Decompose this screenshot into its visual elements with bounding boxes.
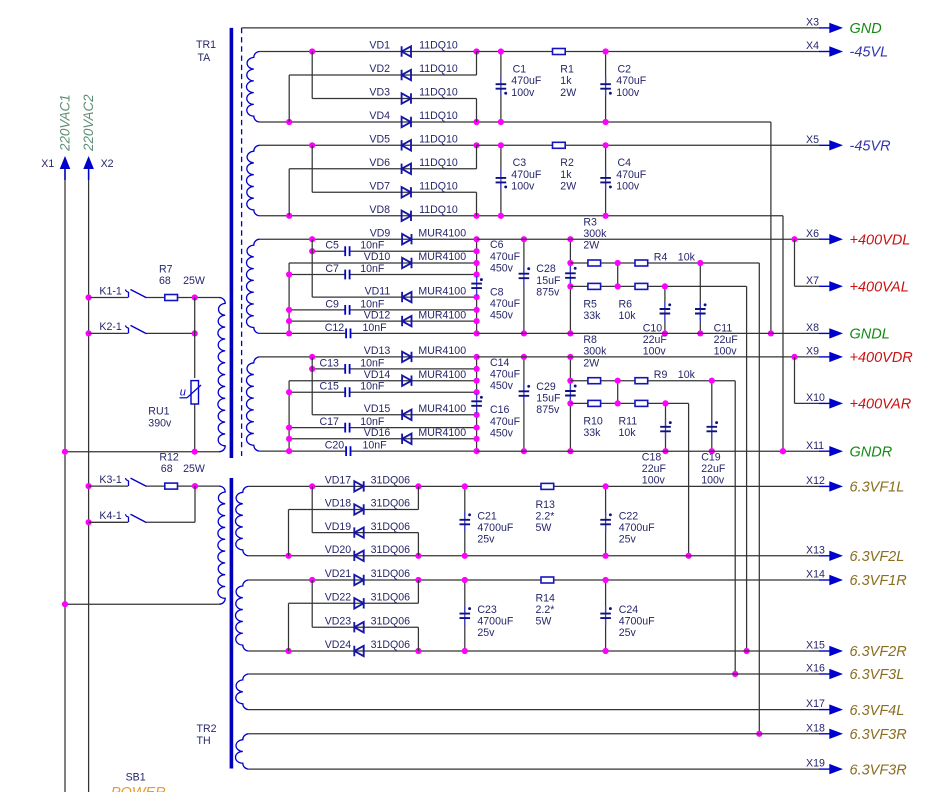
- svg-text:X14: X14: [806, 569, 825, 581]
- wire C17 row: [289, 427, 344, 429]
- svg-text:C10: C10: [643, 323, 663, 335]
- svg-text:R2: R2: [560, 157, 574, 169]
- wire 6.3VF3R rail X18: [249, 733, 819, 735]
- node C6 top: [521, 236, 527, 242]
- svg-text:X3: X3: [806, 17, 819, 29]
- capacitor C23: [464, 580, 466, 614]
- svg-text:C28: C28: [536, 263, 556, 275]
- svg-text:VD3: VD3: [369, 87, 390, 99]
- transformer TR1 core: [230, 28, 234, 458]
- diode VD13 MUR4100: [402, 352, 411, 362]
- node C29 rail top: [567, 354, 573, 360]
- svg-text:11DQ10: 11DQ10: [419, 40, 458, 52]
- wire VD18 left vertical: [288, 510, 290, 556]
- svg-text:470uF: 470uF: [511, 75, 542, 87]
- wire K4-1 to corner: [147, 521, 196, 523]
- node C3 top: [498, 142, 504, 148]
- wire R8 row left: [570, 380, 587, 382]
- capacitor C16: [476, 394, 478, 414]
- svg-text:4700uF: 4700uF: [477, 616, 513, 628]
- node C15 row branch: [286, 389, 292, 395]
- node VD16 row branch: [286, 436, 292, 442]
- diode VD20 31DQ06: [354, 551, 363, 561]
- svg-text:6.3VF1L: 6.3VF1L: [850, 480, 905, 496]
- diode VD2 11DQ10: [402, 70, 411, 80]
- node VD1 row branch: [309, 48, 315, 54]
- wire VD4 row: [260, 121, 501, 123]
- diode VD10 MUR4100: [402, 258, 411, 268]
- wire 6.3VF2L rail: [465, 555, 819, 557]
- terminal X1 arrow: [60, 156, 71, 169]
- node R4 mid top: [615, 260, 621, 266]
- diode VD16 MUR4100: [402, 434, 411, 444]
- node C11 top: [697, 260, 703, 266]
- svg-text:X7: X7: [806, 275, 819, 287]
- wire C9 row: [289, 309, 344, 311]
- capacitor C9 10nF: [345, 305, 349, 315]
- wire C15 row: [289, 391, 344, 393]
- wire R10-R11 segment: [601, 402, 634, 404]
- svg-text:VD7: VD7: [369, 181, 390, 193]
- svg-text:R9: R9: [654, 369, 668, 381]
- svg-text:X2: X2: [101, 158, 114, 170]
- wire K2-1 to junction: [147, 332, 195, 334]
- wire TR2 primary bottom return: [65, 603, 220, 605]
- node right column junction: [474, 366, 480, 372]
- node VD20 right junction: [415, 553, 421, 559]
- node C5 row branch: [309, 248, 315, 254]
- svg-text:10nF: 10nF: [363, 322, 388, 334]
- node VD24 right junction: [415, 648, 421, 654]
- svg-text:11DQ10: 11DQ10: [419, 87, 458, 99]
- wire 6.3VF1L rail: [465, 485, 819, 487]
- capacitor C7 10nF: [345, 270, 349, 280]
- svg-text:R4: R4: [654, 251, 668, 263]
- node C28 rail top: [567, 236, 573, 242]
- transformer TR1 secondary winding 2: [247, 145, 260, 216]
- wire 6.3VF3R rail X19: [249, 768, 819, 770]
- capacitor C24: [605, 580, 607, 614]
- svg-text:6.3VF4L: 6.3VF4L: [850, 703, 905, 719]
- node right column junction: [474, 307, 480, 313]
- node K1-1 tap on X2 line: [86, 294, 92, 300]
- varistor RU1: [191, 381, 199, 404]
- diode VD21 31DQ06: [354, 575, 363, 585]
- svg-text:VD14: VD14: [364, 369, 391, 381]
- svg-text:10nF: 10nF: [360, 357, 385, 369]
- node right column junction: [474, 294, 480, 300]
- node K2-1 tap on X2 line: [86, 330, 92, 336]
- svg-text:K1-1: K1-1: [99, 285, 121, 297]
- node right column junction: [474, 378, 480, 384]
- svg-text:4700uF: 4700uF: [619, 522, 655, 534]
- svg-text:POWER: POWER: [111, 785, 166, 792]
- svg-text:68: 68: [159, 275, 171, 287]
- svg-text:6.3VF3R: 6.3VF3R: [850, 727, 908, 743]
- svg-text:470uF: 470uF: [511, 169, 542, 181]
- resistor R2: [553, 142, 566, 148]
- capacitor C29 column: [569, 357, 571, 381]
- svg-text:C2: C2: [618, 64, 632, 76]
- svg-text:MUR4100: MUR4100: [418, 285, 466, 297]
- node VD8 return on GNDR: [780, 448, 786, 454]
- svg-text:22uF: 22uF: [642, 463, 667, 475]
- svg-text:33k: 33k: [583, 427, 601, 439]
- diode VD1 11DQ10: [402, 46, 411, 56]
- wire RU1 to primary return: [194, 405, 196, 452]
- node VD21 right junction: [415, 577, 421, 583]
- svg-text:10k: 10k: [678, 369, 696, 381]
- node R6 drop to X15 rail: [744, 648, 750, 654]
- svg-text:6.3VF2L: 6.3VF2L: [850, 549, 905, 565]
- svg-text:+400VDL: +400VDL: [850, 232, 911, 248]
- wire GND rail to X3: [242, 27, 819, 29]
- node R11 mid bottom: [615, 400, 621, 406]
- svg-text:VD4: VD4: [369, 110, 390, 122]
- node VD12 row branch: [286, 318, 292, 324]
- node TR1 primary top junction: [192, 294, 198, 300]
- wire VD9-VD11 left vertical: [311, 239, 313, 297]
- wire R4 row right: [648, 262, 759, 264]
- wire VD22 row: [289, 602, 419, 604]
- svg-text:25v: 25v: [619, 534, 637, 546]
- terminal X8 GNDL: [819, 332, 830, 334]
- svg-text:C20: C20: [325, 440, 345, 452]
- node right column junction: [474, 354, 480, 360]
- svg-text:100v: 100v: [714, 346, 738, 358]
- wire 6.3VF2R rail: [465, 650, 819, 652]
- wire VD10 left vertical: [288, 263, 290, 333]
- diode VD24 31DQ06: [354, 646, 363, 656]
- node C22 top: [603, 483, 609, 489]
- node R11 drop to X13 rail: [686, 553, 692, 559]
- wire R9 row right: [648, 380, 735, 382]
- terminal X2 arrow: [83, 156, 94, 169]
- svg-text:6.3VF1R: 6.3VF1R: [850, 573, 908, 589]
- node right column junction: [474, 318, 480, 324]
- svg-text:5W: 5W: [536, 616, 552, 628]
- wire R4-R6 middle vertical: [617, 263, 619, 286]
- svg-text:K4-1: K4-1: [99, 510, 121, 522]
- wire C7 row: [289, 274, 344, 276]
- wire VD5-VD7 left vertical: [311, 145, 313, 192]
- wire VD13 row: [260, 356, 477, 358]
- svg-text:100v: 100v: [701, 475, 725, 487]
- svg-text:10k: 10k: [619, 310, 637, 322]
- node C28 rail bottom: [567, 330, 573, 336]
- wire VD1 row: [260, 51, 477, 53]
- svg-text:R10: R10: [583, 415, 603, 427]
- svg-text:C29: C29: [536, 381, 556, 393]
- svg-text:X19: X19: [806, 758, 825, 770]
- resistor R7: [165, 295, 178, 301]
- wire K1-1 to R7: [147, 297, 165, 299]
- node C2 top: [603, 48, 609, 54]
- wire R12 to TR2 primary: [178, 485, 220, 487]
- transformer TR2 primary winding: [218, 486, 225, 604]
- svg-text:6.3VF2R: 6.3VF2R: [850, 644, 908, 660]
- svg-text:C21: C21: [477, 510, 497, 522]
- transformer TR1 secondary winding 3: [247, 239, 260, 333]
- svg-text:C7: C7: [325, 263, 339, 275]
- svg-text:11DQ10: 11DQ10: [419, 181, 458, 193]
- svg-text:6.3VF3R: 6.3VF3R: [850, 762, 908, 778]
- diode VD22 31DQ06: [354, 598, 363, 608]
- node right column junction: [474, 248, 480, 254]
- capacitor C1: [500, 52, 502, 85]
- svg-text:+400VDR: +400VDR: [850, 350, 914, 366]
- node C9 row branch: [286, 307, 292, 313]
- svg-text:450v: 450v: [490, 310, 514, 322]
- terminal X5 -45VR: [819, 144, 830, 146]
- svg-text:MUR4100: MUR4100: [418, 427, 466, 439]
- svg-text:C11: C11: [714, 323, 733, 335]
- svg-text:GND: GND: [850, 21, 882, 37]
- resistor R5: [588, 283, 601, 289]
- diode VD12 MUR4100: [402, 316, 411, 326]
- node C19 top: [709, 378, 715, 384]
- svg-text:4700uF: 4700uF: [619, 616, 655, 628]
- svg-text:C3: C3: [513, 157, 527, 169]
- transformer TR1 primary winding: [218, 297, 225, 451]
- svg-text:R3: R3: [583, 216, 597, 228]
- node VD9 row branch: [309, 236, 315, 242]
- svg-text:R7: R7: [159, 263, 173, 275]
- node R9 drop to X16 rail: [732, 671, 738, 677]
- wire VD7 row: [312, 191, 476, 193]
- wire VD6 row: [289, 168, 476, 170]
- wire R6 row drop vertical: [746, 286, 748, 651]
- svg-text:VD22: VD22: [325, 592, 352, 604]
- node VD21 row branch: [309, 577, 315, 583]
- svg-text:VD1: VD1: [369, 40, 390, 52]
- node C22 bottom: [603, 553, 609, 559]
- svg-text:C5: C5: [325, 240, 339, 252]
- node X7 branch: [791, 236, 797, 242]
- wire X9 to X10 jog: [794, 357, 796, 404]
- svg-text:C9: C9: [325, 298, 339, 310]
- wire R3 row left: [570, 262, 587, 264]
- capacitor C6: [523, 239, 525, 274]
- diode VD17 31DQ06: [354, 481, 363, 491]
- resistor R12: [165, 483, 178, 489]
- svg-text:K2-1: K2-1: [99, 321, 121, 333]
- resistor R3: [588, 260, 601, 266]
- svg-text:VD23: VD23: [325, 615, 352, 627]
- node right column junction: [474, 425, 480, 431]
- diode VD5 11DQ10: [402, 140, 411, 150]
- svg-text:C19: C19: [701, 451, 721, 463]
- terminal X4 -45VL: [819, 51, 830, 53]
- capacitor C17 10nF: [345, 423, 349, 433]
- wire VD7-VD8 right vertical: [476, 192, 478, 216]
- wire VD17-VD19 left vertical: [311, 486, 313, 532]
- svg-text:2W: 2W: [560, 87, 576, 99]
- svg-text:X15: X15: [806, 640, 825, 652]
- terminal X7 +400VAL: [819, 285, 830, 287]
- svg-text:R8: R8: [583, 334, 597, 346]
- node C18 bottom: [662, 448, 668, 454]
- node R8 row left: [567, 378, 573, 384]
- svg-text:X4: X4: [806, 40, 819, 52]
- svg-text:VD5: VD5: [369, 134, 390, 146]
- wire VD4 return drop to GNDL: [770, 122, 772, 333]
- wire +400VDR rail right portion: [477, 356, 819, 358]
- wire VD14 left vertical: [288, 381, 290, 451]
- wire VD8 row: [260, 215, 501, 217]
- svg-text:VD15: VD15: [364, 403, 391, 415]
- wire R5 row left: [570, 285, 587, 287]
- wire 6.3VF3L rail: [249, 673, 819, 675]
- capacitor C20 10nF: [346, 446, 350, 456]
- terminal X3 GND: [819, 27, 830, 29]
- svg-text:R1: R1: [560, 64, 574, 76]
- svg-text:2.2*: 2.2*: [536, 604, 555, 616]
- svg-text:X10: X10: [806, 392, 825, 404]
- svg-text:R5: R5: [583, 298, 597, 310]
- svg-text:VD17: VD17: [325, 475, 352, 487]
- node VD4 row right junction: [473, 119, 479, 125]
- switch K2-1: [89, 332, 128, 334]
- node R10 row left: [567, 400, 573, 406]
- node K3-1 tap on X2 line: [86, 483, 92, 489]
- diode VD8 11DQ10: [402, 211, 411, 221]
- wire right column lower segment: [476, 408, 478, 451]
- wire VD9 row: [260, 238, 477, 240]
- capacitor C4: [605, 145, 607, 178]
- svg-text:X6: X6: [806, 228, 819, 240]
- node K4-1 tap on X2 line: [86, 519, 92, 525]
- wire R11 row drop vertical: [688, 403, 690, 555]
- wire VD11 row: [312, 296, 476, 298]
- node C29 rail bottom: [567, 448, 573, 454]
- svg-text:VD6: VD6: [369, 157, 390, 169]
- diode VD18 31DQ06: [354, 504, 363, 514]
- wire VD8 return rail: [501, 215, 783, 217]
- svg-text:-45VR: -45VR: [850, 139, 892, 155]
- node C7 row branch: [286, 271, 292, 277]
- svg-text:15uF: 15uF: [536, 275, 561, 287]
- wire VD23 row: [312, 626, 418, 628]
- svg-text:100v: 100v: [511, 87, 535, 99]
- node TR2 primary top junction: [192, 483, 198, 489]
- wire -45VR rail: [477, 144, 820, 146]
- svg-text:C24: C24: [619, 604, 639, 616]
- wire 6.3VF1R rail: [465, 579, 819, 581]
- wire VD5 row: [260, 144, 477, 146]
- svg-text:VD12: VD12: [364, 309, 391, 321]
- svg-text:X16: X16: [806, 663, 825, 675]
- wire VD20 row: [249, 555, 465, 557]
- wire 6.3VF4L rail: [249, 709, 819, 711]
- resistor R11: [635, 400, 648, 406]
- transformer TR2 secondary winding 3: [236, 486, 249, 555]
- wire VD17 row: [249, 485, 465, 487]
- node VD4 row branch: [286, 119, 292, 125]
- svg-text:470uF: 470uF: [616, 169, 647, 181]
- node C11 bottom: [697, 330, 703, 336]
- svg-text:100v: 100v: [616, 87, 640, 99]
- svg-text:C8: C8: [490, 287, 504, 299]
- node C17 row branch: [286, 425, 292, 431]
- wire VD15 row: [312, 414, 476, 416]
- svg-text:MUR4100: MUR4100: [418, 251, 466, 263]
- wire C20 bottom rail segment: [260, 450, 346, 452]
- svg-text:VD19: VD19: [325, 521, 352, 533]
- capacitor C11: [699, 263, 701, 309]
- svg-text:X9: X9: [806, 346, 819, 358]
- svg-text:300k: 300k: [583, 228, 607, 240]
- node C21 top: [462, 483, 468, 489]
- svg-text:VD11: VD11: [365, 285, 391, 297]
- capacitor C15 10nF: [345, 387, 349, 397]
- wire VD13-VD15 left vertical: [311, 357, 313, 415]
- svg-text:25v: 25v: [477, 627, 495, 639]
- diode VD11 MUR4100: [402, 292, 411, 302]
- svg-text:MUR4100: MUR4100: [418, 345, 466, 357]
- node right column junction: [474, 330, 480, 336]
- svg-text:TR1: TR1: [196, 39, 216, 51]
- wire R9-R11 middle vertical: [617, 381, 619, 404]
- wire K3-1 to R12: [147, 485, 165, 487]
- svg-text:25W: 25W: [183, 275, 205, 287]
- resistor R14: [541, 577, 554, 583]
- terminal X11 GNDR: [819, 450, 830, 452]
- node C1 top: [498, 48, 504, 54]
- svg-text:C23: C23: [477, 604, 497, 616]
- svg-text:R6: R6: [619, 298, 633, 310]
- svg-text:31DQ06: 31DQ06: [371, 498, 411, 510]
- svg-text:31DQ06: 31DQ06: [371, 544, 411, 556]
- node winding bottom branch: [286, 330, 292, 336]
- svg-text:VD20: VD20: [325, 544, 352, 556]
- transformer TR1 secondary winding 1: [247, 51, 260, 122]
- svg-text:31DQ06: 31DQ06: [371, 521, 411, 533]
- resistor R9: [635, 378, 648, 384]
- switch K3-1: [89, 485, 128, 487]
- wire GNDR rail right portion: [477, 450, 819, 452]
- resistor R13: [541, 483, 554, 489]
- capacitor C12 10nF: [346, 329, 350, 339]
- diode VD15 MUR4100: [402, 410, 411, 420]
- terminal X16 6.3VF3L: [819, 673, 830, 675]
- svg-text:6.3VF3L: 6.3VF3L: [850, 667, 905, 683]
- svg-text:10k: 10k: [678, 251, 696, 263]
- wire VD1-VD3 left vertical: [311, 52, 313, 99]
- node right column junction: [474, 436, 480, 442]
- wire VD22 left vertical: [288, 603, 290, 651]
- terminal X18 6.3VF3R: [819, 733, 830, 735]
- terminal X9 +400VDR: [819, 356, 830, 358]
- wire K4-1 vertical to K3 node: [194, 486, 196, 522]
- capacitor C8: [476, 276, 478, 296]
- svg-text:10k: 10k: [619, 427, 637, 439]
- node X1 line TR1 return: [62, 449, 68, 455]
- svg-text:10nF: 10nF: [360, 381, 385, 393]
- svg-text:100v: 100v: [511, 181, 535, 193]
- capacitor C3: [500, 145, 502, 178]
- node C2 bottom: [603, 119, 609, 125]
- wire R10 row left: [570, 402, 587, 404]
- svg-text:C16: C16: [490, 404, 510, 416]
- node C21 bottom: [462, 553, 468, 559]
- svg-text:4700uF: 4700uF: [477, 522, 513, 534]
- node VD5 row right junction: [473, 142, 479, 148]
- node right column junction: [474, 271, 480, 277]
- node right column junction: [474, 389, 480, 395]
- transformer TR2 core: [230, 478, 234, 769]
- svg-text:MUR4100: MUR4100: [418, 403, 466, 415]
